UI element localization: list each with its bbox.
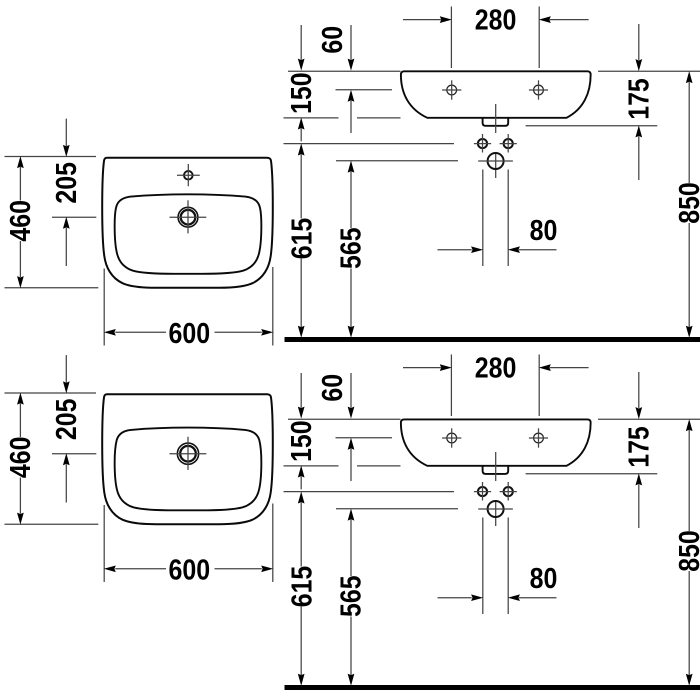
svg-text:60: 60 <box>316 26 348 54</box>
svg-text:205: 205 <box>50 162 82 204</box>
svg-text:280: 280 <box>475 352 517 384</box>
svg-text:150: 150 <box>285 72 317 114</box>
svg-text:615: 615 <box>286 566 318 608</box>
svg-text:80: 80 <box>530 214 558 246</box>
svg-text:60: 60 <box>316 374 348 402</box>
svg-text:460: 460 <box>4 200 36 242</box>
svg-text:205: 205 <box>50 399 82 441</box>
svg-text:565: 565 <box>335 575 367 617</box>
svg-text:460: 460 <box>4 437 36 479</box>
svg-text:280: 280 <box>475 4 517 36</box>
svg-text:565: 565 <box>335 227 367 269</box>
svg-text:175: 175 <box>623 78 655 120</box>
svg-text:80: 80 <box>530 562 558 594</box>
svg-text:850: 850 <box>673 182 700 224</box>
svg-text:600: 600 <box>169 554 211 586</box>
svg-text:150: 150 <box>285 420 317 462</box>
svg-text:850: 850 <box>673 530 700 572</box>
svg-text:175: 175 <box>623 426 655 468</box>
svg-text:615: 615 <box>286 218 318 260</box>
svg-text:600: 600 <box>169 317 211 349</box>
